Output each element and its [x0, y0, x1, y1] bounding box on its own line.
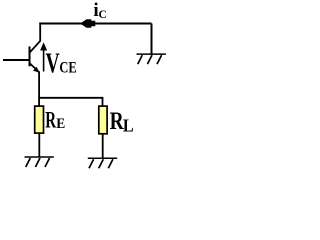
collector diagonal	[30, 41, 41, 53]
ground below RL	[88, 158, 117, 168]
svg-text:CE: CE	[59, 59, 76, 77]
transistor Q1	[3, 41, 40, 73]
label VCE	[46, 48, 61, 79]
ground top-right	[137, 54, 166, 64]
label RE	[45, 108, 57, 133]
emitter diagonal	[30, 63, 39, 72]
wire: emitter vertical	[38, 72, 40, 107]
svg-text:R: R	[45, 108, 57, 133]
wire: RL drop	[102, 97, 104, 107]
svg-text:V: V	[46, 48, 61, 79]
svg-text:C: C	[99, 8, 107, 21]
svg-text:L: L	[123, 116, 134, 136]
ground below RE	[25, 157, 54, 167]
resistor RE	[35, 106, 44, 133]
label RL	[110, 107, 125, 135]
wire: right vertical	[151, 24, 153, 55]
base bar	[29, 46, 31, 66]
label iC	[93, 0, 98, 21]
voltage arrow VCE (points up)	[43, 50, 45, 72]
svg-text:E: E	[56, 115, 65, 132]
current arrow iC on wire	[80, 19, 95, 27]
wire: emitter node E to RL (node E junction)	[38, 97, 102, 99]
wire: collector vertical	[39, 23, 41, 42]
base lead	[3, 59, 30, 61]
wire: below RE	[38, 134, 40, 157]
emitter arrowhead	[33, 67, 39, 73]
wire: top horizontal	[39, 23, 151, 25]
resistor RL	[99, 106, 107, 134]
wire: below RL	[102, 134, 104, 158]
